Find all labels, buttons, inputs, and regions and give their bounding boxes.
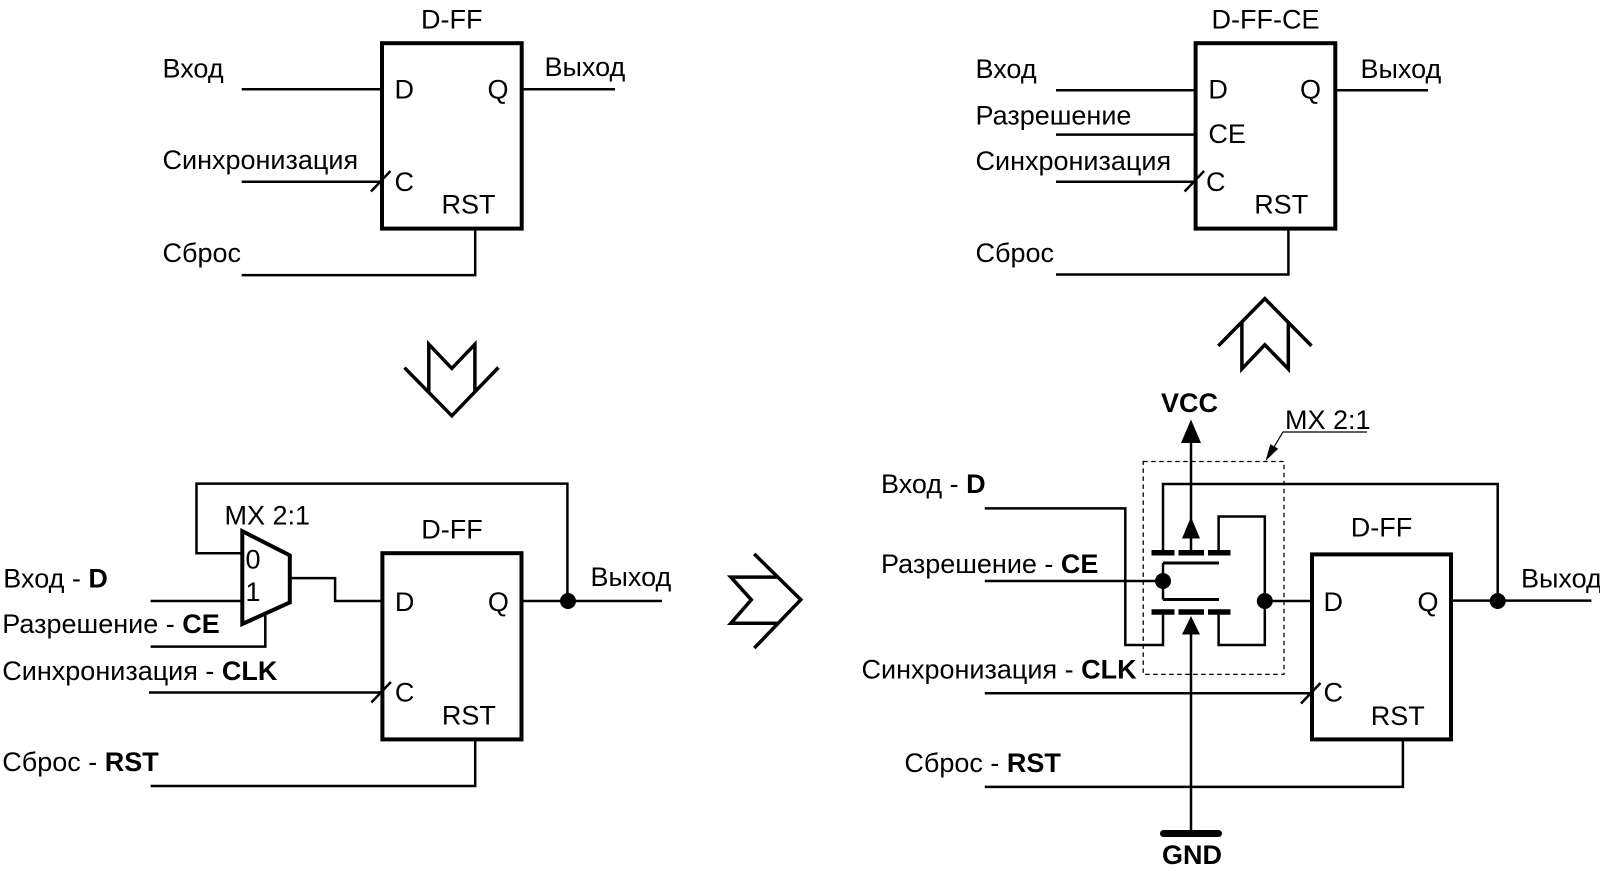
wire U1.Q to Выход (522, 88, 615, 91)
svg-text:RST: RST (442, 190, 496, 220)
flip-flop U1 D-FF body (382, 43, 522, 228)
wire MX output to U4.D (1265, 600, 1312, 603)
wire Вход to U2.D (1056, 89, 1196, 92)
svg-text:C: C (395, 678, 415, 708)
dashed boundary box of MX 2:1 (1143, 462, 1284, 675)
ground GND lead wire (1190, 632, 1193, 830)
svg-text:RST: RST (1254, 190, 1308, 220)
flip-flop U2 D-FF-CE body (1196, 43, 1336, 228)
clock edge slash at U2.C (1185, 171, 1205, 192)
junction dot at U3.Q output node (560, 593, 576, 609)
svg-text:Разрешение: Разрешение (976, 101, 1132, 131)
svg-text:1: 1 (246, 577, 261, 607)
wire Сброс to U1.RST (242, 229, 476, 276)
svg-text:C: C (1324, 678, 1344, 708)
wire Синхронизация to U4.C (985, 692, 1312, 695)
power VCC arrow symbol (1181, 420, 1201, 551)
clock edge slash at U4.C (1301, 683, 1321, 704)
ground GND bar symbol (1164, 830, 1219, 837)
svg-text:MX 2:1: MX 2:1 (225, 500, 311, 530)
transistor Q1 substrate arrow from VCC (1182, 517, 1200, 539)
svg-text:Вход: Вход (976, 54, 1037, 84)
wire Вход to Q2 source (985, 508, 1163, 645)
svg-text:Q: Q (1300, 75, 1321, 105)
svg-text:Вход: Вход (163, 53, 224, 83)
junction dot at MX output node (1257, 593, 1273, 609)
svg-text:MX 2:1: MX 2:1 (1285, 405, 1371, 435)
wire Разрешение to U2.CE (1056, 133, 1196, 136)
wire Вход to MX1 input 1 (151, 600, 243, 603)
svg-text:D-FF: D-FF (421, 515, 482, 545)
wire feedback Q to transistor Q1 source (1163, 484, 1498, 601)
wire MX1 output to U3.D (290, 578, 383, 601)
svg-text:D-FF-CE: D-FF-CE (1212, 4, 1320, 34)
svg-text:Q: Q (1418, 587, 1439, 617)
svg-text:VCC: VCC (1161, 388, 1218, 418)
transistor Q2 gate electrode (1163, 598, 1219, 601)
wire Сброс to U3.RST (151, 739, 476, 786)
svg-text:Сброс: Сброс (976, 238, 1055, 268)
transform arrow up (double chevron) (1218, 299, 1311, 369)
svg-text:Сброс: Сброс (163, 238, 242, 268)
svg-text:Вход - D: Вход - D (881, 469, 986, 499)
transistor Q2 channel bar (lower pass transistor) (1152, 609, 1231, 615)
wire Сброс to U4.RST (985, 739, 1403, 787)
svg-text:Разрешение - CE: Разрешение - CE (881, 549, 1098, 579)
svg-text:D: D (395, 75, 415, 105)
svg-text:D-FF: D-FF (1351, 513, 1412, 543)
wire U4.Q to Выход (1451, 599, 1591, 602)
svg-text:D: D (1208, 75, 1228, 105)
wire Q2 drain to output node (1219, 601, 1265, 645)
transistor Q1 channel bar (upper pass transistor) (1152, 550, 1231, 556)
wire feedback Q to MX1 input 0 (197, 484, 568, 601)
svg-text:C: C (395, 167, 415, 197)
svg-text:Выход: Выход (1521, 563, 1600, 593)
svg-text:Q: Q (488, 75, 509, 105)
leader line MX 2:1 callout (1266, 432, 1368, 461)
svg-text:Разрешение - CE: Разрешение - CE (2, 609, 219, 639)
junction dot at U4.Q output node (1490, 593, 1506, 609)
transform arrow right (double chevron) (731, 554, 801, 648)
svg-text:Вход - D: Вход - D (3, 563, 108, 593)
flip-flop U4 D-FF body (1312, 554, 1451, 739)
svg-text:D-FF: D-FF (421, 4, 482, 34)
wire Разрешение to MX1 select (151, 614, 266, 647)
svg-text:Выход: Выход (591, 562, 672, 592)
svg-text:Сброс - RST: Сброс - RST (904, 748, 1061, 778)
svg-text:Синхронизация - CLK: Синхронизация - CLK (862, 655, 1138, 685)
junction dot at CE gate node (1155, 573, 1171, 589)
wire Q1 drain to output node (1219, 517, 1265, 602)
svg-text:Выход: Выход (545, 52, 626, 82)
svg-text:CE: CE (1208, 119, 1246, 149)
wire Сброс to U2.RST (1056, 229, 1288, 275)
svg-text:Синхронизация: Синхронизация (163, 145, 359, 175)
wire Вход to U1.D (242, 88, 382, 91)
transform arrow down (double chevron) (405, 344, 499, 416)
svg-text:RST: RST (442, 701, 496, 731)
svg-text:C: C (1206, 167, 1226, 197)
clock edge slash at U3.C (371, 682, 391, 703)
svg-text:0: 0 (246, 545, 261, 575)
transistor Q2 substrate arrow from GND (1182, 616, 1200, 635)
multiplexer MX1 body (MX 2:1 trapezoid) (242, 531, 289, 624)
svg-text:D: D (395, 587, 415, 617)
svg-text:Синхронизация - CLK: Синхронизация - CLK (2, 656, 278, 686)
wire CE to gates of Q1 and Q2 (985, 563, 1163, 600)
svg-text:D: D (1324, 587, 1344, 617)
wire U2.Q to Выход (1335, 89, 1428, 92)
transistor Q1 gate electrode (1163, 562, 1219, 565)
svg-text:Синхронизация: Синхронизация (976, 146, 1172, 176)
svg-text:RST: RST (1371, 701, 1425, 731)
svg-text:Q: Q (488, 587, 509, 617)
flip-flop U3 D-FF body (382, 553, 521, 739)
wire Синхронизация to U2.C (1056, 181, 1196, 184)
clock edge slash at U1.C (371, 171, 391, 192)
svg-text:Сброс - RST: Сброс - RST (2, 747, 159, 777)
svg-text:Выход: Выход (1361, 54, 1442, 84)
wire Синхронизация to U3.C (149, 691, 382, 694)
svg-text:GND: GND (1162, 840, 1222, 870)
wire Синхронизация to U1.C (242, 181, 382, 184)
wire U3.Q to Выход (522, 600, 663, 603)
